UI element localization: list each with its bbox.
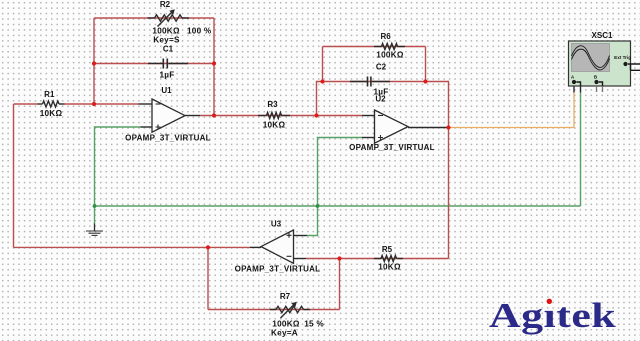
wire: [307, 138, 362, 236]
wire: [250, 246, 261, 248]
node junction: [206, 245, 210, 249]
capacitor C1: [148, 59, 188, 69]
node junction: [212, 113, 216, 117]
node junction: [92, 102, 96, 106]
svg-text:C2: C2: [376, 63, 387, 72]
Agitek logo: [489, 296, 616, 334]
svg-text:100KΩ: 100KΩ: [152, 27, 180, 36]
wire: [94, 17, 214, 19]
wire: [294, 258, 307, 260]
svg-text:OPAMP_3T_VIRTUAL: OPAMP_3T_VIRTUAL: [235, 265, 321, 274]
wire: [580, 93, 582, 207]
resistor R6: [374, 44, 405, 50]
svg-text:OPAMP_3T_VIRTUAL: OPAMP_3T_VIRTUAL: [349, 143, 435, 152]
wire: [200, 115, 362, 117]
node junction: [446, 125, 450, 129]
svg-text:10KΩ: 10KΩ: [263, 120, 286, 129]
wire: [141, 126, 153, 128]
wire: [449, 127, 575, 129]
svg-text:OPAMP_3T_VIRTUAL: OPAMP_3T_VIRTUAL: [125, 134, 211, 143]
wire: [448, 128, 450, 259]
op-amp U2: [375, 110, 409, 143]
wire: [208, 309, 340, 311]
svg-text:R5: R5: [382, 245, 393, 254]
wire: [426, 82, 449, 128]
svg-text:100 %: 100 %: [187, 27, 212, 36]
potentiometer R7: [270, 302, 310, 318]
wire: [323, 81, 426, 83]
node junction: [337, 256, 341, 260]
svg-text:U3: U3: [271, 219, 282, 228]
svg-text:1µF: 1µF: [159, 70, 174, 79]
svg-text:R3: R3: [267, 100, 278, 109]
wire: [14, 246, 251, 248]
node junction: [212, 61, 216, 65]
wire: [207, 247, 209, 309]
capacitor C2: [350, 77, 390, 87]
wire: [323, 46, 426, 48]
svg-text:R6: R6: [380, 32, 391, 41]
wire: [573, 93, 575, 128]
node junction: [423, 79, 427, 83]
wire: [425, 47, 427, 82]
svg-text:C1: C1: [163, 45, 174, 54]
svg-text:Agıtek: Agıtek: [489, 296, 616, 334]
wire: [306, 258, 449, 260]
node junction: [92, 61, 96, 65]
svg-text:100KΩ: 100KΩ: [376, 51, 404, 60]
wire: [580, 86, 582, 93]
svg-text:XSC1: XSC1: [592, 31, 613, 40]
wire: [317, 82, 323, 116]
resistor R1: [38, 101, 65, 107]
op-amp U1: [152, 99, 185, 132]
wire: [14, 103, 38, 105]
ground: [86, 224, 103, 236]
svg-text:R1: R1: [44, 90, 55, 99]
node junction: [320, 79, 324, 83]
wire: [93, 18, 95, 104]
wire: [95, 127, 141, 224]
wire: [213, 18, 215, 116]
op-amp U3: [261, 230, 294, 263]
resistor R3: [258, 113, 290, 119]
node junction: [314, 113, 318, 117]
svg-text:Ext Trig: Ext Trig: [614, 55, 631, 60]
wire: [339, 259, 341, 310]
svg-text:100KΩ: 100KΩ: [272, 320, 300, 329]
svg-text:15 %: 15 %: [304, 320, 324, 329]
wire: [322, 47, 324, 82]
wire: [13, 104, 15, 247]
wire: [65, 103, 139, 105]
svg-text:10KΩ: 10KΩ: [378, 262, 401, 271]
svg-text:R7: R7: [280, 292, 291, 301]
wire: [362, 115, 375, 117]
wire: [294, 235, 308, 237]
wire: [573, 86, 575, 93]
oscilloscope XSC1: [569, 41, 640, 92]
svg-text:R2: R2: [160, 0, 171, 9]
svg-text:Key=A: Key=A: [271, 329, 298, 338]
node junction green: [93, 204, 97, 208]
wire: [185, 115, 200, 117]
wire: [94, 63, 214, 65]
resistor R5: [374, 256, 403, 262]
svg-text:U2: U2: [375, 95, 386, 104]
wire: [408, 127, 448, 129]
node junction green: [316, 204, 320, 208]
wire: [139, 103, 153, 105]
wire: [95, 205, 581, 207]
svg-text:10KΩ: 10KΩ: [40, 109, 63, 118]
svg-text:U1: U1: [161, 86, 172, 95]
potentiometer R2: [148, 9, 190, 26]
wire: [362, 137, 375, 139]
svg-text:Key=S: Key=S: [153, 36, 180, 45]
